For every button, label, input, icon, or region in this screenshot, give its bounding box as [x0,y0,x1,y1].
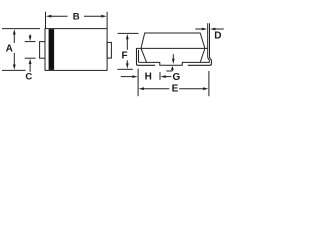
dimension F upper up-arrow [126,34,129,50]
svg-text:E: E [172,84,179,95]
body bottom line with centre shelf steps [140,58,210,66]
dimension H line left with right arrow [121,75,138,78]
dimension C extension line top [25,41,36,43]
top view body outline [45,29,107,71]
dimension B extension line left [45,12,47,28]
side view left lower bevel [141,48,147,62]
cathode band (top view) [49,29,55,70]
dimension D right arrow pointing left [210,28,224,31]
left terminal tab (top view) [40,42,45,59]
svg-text:C: C [25,71,32,82]
dimension F extension line top [118,32,139,34]
svg-text:F: F [121,51,127,62]
dimension E line left with left arrow [139,87,170,90]
dimension D extension line left [207,23,209,57]
dimension B extension line right [106,12,108,28]
side view right lower bevel [200,48,205,62]
dimension B right arrow [84,15,107,18]
dimension E right extension line [208,71,210,96]
dimension F extension line bottom [117,68,132,70]
dimension H right arrow pointing left [160,75,171,78]
shared extension line (H left / E left) [137,69,139,97]
svg-text:B: B [73,11,80,22]
side view top edge and upper bevels [141,33,205,48]
svg-text:H: H [145,72,152,83]
right lead outer contour [188,58,211,66]
dimension F lower down-arrow [126,60,129,69]
left lead inner face [139,50,140,63]
dimension B left arrow [46,15,68,18]
dimension C extension line bottom [25,57,36,59]
dimension D left arrow pointing right [195,28,207,31]
dimension A upper arrow [13,29,16,43]
left lead outer contour [137,49,155,66]
mold parting line [136,47,207,49]
dimension G lower up-arrow with tail [166,66,174,71]
right terminal tab (top view) [107,42,111,58]
svg-text:A: A [6,43,13,54]
dimension A extension line top [2,28,40,30]
svg-text:G: G [173,72,181,83]
dimension C upper down-arrow [29,34,32,41]
dimension H right bar [159,72,161,80]
svg-text:D: D [214,31,221,42]
dimension D extension line right [209,23,211,57]
dimension A extension line bottom [2,69,26,71]
dimension C lower up-arrow [29,59,32,72]
dimension E line right with right arrow [179,87,208,90]
dimension G upper down-arrow [172,54,175,64]
dimension A lower arrow [13,53,16,70]
